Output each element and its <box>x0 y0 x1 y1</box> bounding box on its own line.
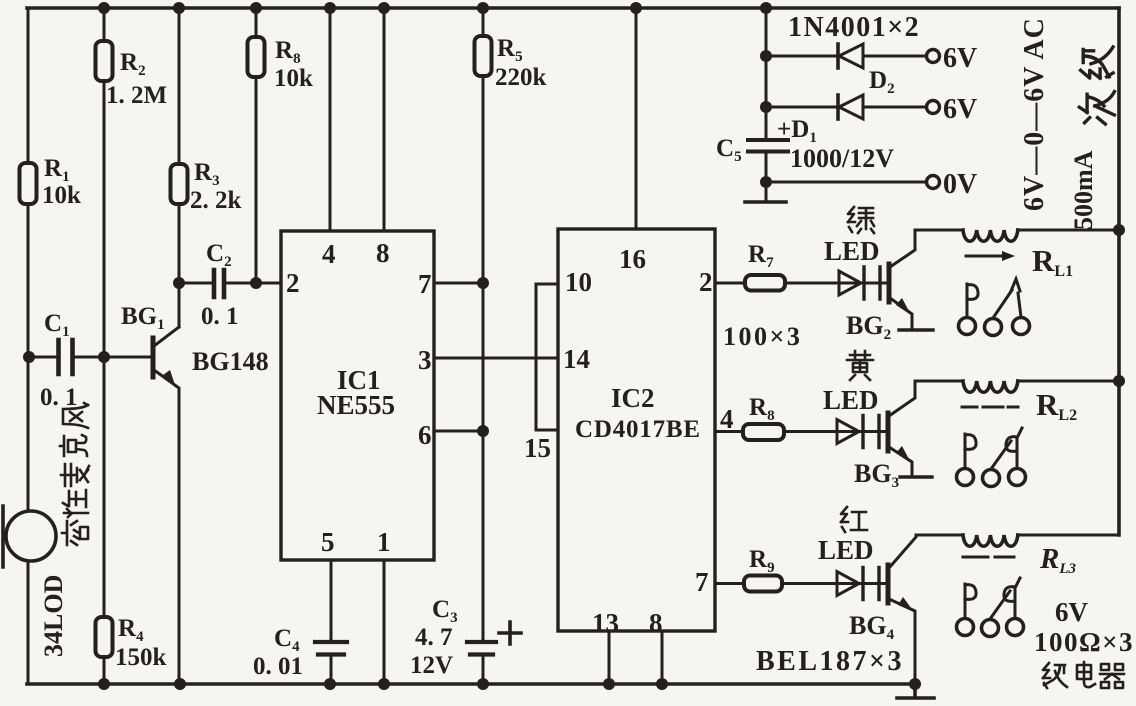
wire power supply column <box>765 8 768 140</box>
transistor Q1 BG1 emitter <box>154 370 179 684</box>
node RL1 rail junction <box>1113 224 1125 236</box>
wire bottom ground rail <box>27 682 916 686</box>
node power column junctions <box>760 50 772 188</box>
svg-text:BG2: BG2 <box>846 311 891 343</box>
svg-text:4: 4 <box>322 239 336 269</box>
svg-text:R1: R1 <box>44 155 70 185</box>
transistor Q2 BG2 base bar <box>887 264 892 302</box>
LED D3 green <box>839 267 880 299</box>
svg-text:100Ω×3: 100Ω×3 <box>1034 627 1134 657</box>
svg-text:6V—0—6V AC: 6V—0—6V AC <box>1019 17 1050 211</box>
wire IC1 pin8 column <box>383 8 386 231</box>
wire mic to C1 <box>28 356 56 359</box>
svg-text:R9: R9 <box>749 546 775 576</box>
capacitor C1 <box>59 340 73 374</box>
svg-text:C5: C5 <box>716 135 742 165</box>
svg-text:5: 5 <box>321 527 335 557</box>
wire right rail <box>1117 8 1121 535</box>
resistor R7 <box>745 275 785 291</box>
wire IC2 pin16 column <box>635 8 638 229</box>
svg-text:1000/12V: 1000/12V <box>790 144 894 173</box>
wire relay RL3 row with coil <box>916 534 1119 537</box>
node pin7 junction <box>477 277 489 289</box>
svg-text:R2: R2 <box>120 49 146 79</box>
wire 0V row <box>766 181 927 184</box>
transistor Q4 BG4 base bar <box>886 565 891 603</box>
svg-text:8: 8 <box>649 608 663 638</box>
microphone 34LOD body <box>6 511 56 561</box>
svg-text:NE555: NE555 <box>317 390 395 420</box>
wire IC1 pin1 column <box>383 560 386 684</box>
svg-text:7: 7 <box>418 269 432 299</box>
svg-text:LED: LED <box>824 236 880 266</box>
node RL2 rail junction <box>1113 375 1125 387</box>
op-amp IC1 box <box>281 231 434 560</box>
wire C2 to IC1 pin2 <box>226 282 281 285</box>
LED D5 red <box>837 568 879 600</box>
svg-text:R7: R7 <box>748 241 774 271</box>
wire relay RL1 row with coil <box>915 229 1119 232</box>
wire IC1 pin4 column <box>329 8 332 231</box>
transistor Q1 BG1 emitter arrow <box>163 370 176 388</box>
relay RL2 moving contact <box>991 441 1011 469</box>
svg-text:R8: R8 <box>749 394 775 424</box>
wire R6 220k column <box>482 8 485 640</box>
svg-text:0. 1: 0. 1 <box>40 384 78 411</box>
relay RL2 contact circles <box>957 469 1026 487</box>
diode D1 <box>838 95 863 119</box>
relay RL1 contact circles <box>959 318 1030 336</box>
wire R3 collector column <box>178 8 181 283</box>
relay RL3 right contact pin <box>1004 578 1020 618</box>
wire IC2 pin7 to R9 <box>715 582 744 585</box>
wire R4 column <box>103 357 106 684</box>
label green <box>848 207 874 233</box>
transistor Q4 BG4 emitter <box>889 599 915 684</box>
svg-text:BG1: BG1 <box>121 303 165 333</box>
relay RL1 core arrow <box>966 255 1006 258</box>
svg-text:6V: 6V <box>1055 597 1089 627</box>
capacitor C3 plus sign <box>499 622 521 644</box>
wire IC2 pin8 to ground <box>661 631 664 684</box>
wire left rail upper (through R1) <box>27 8 30 510</box>
svg-text:1N4001×2: 1N4001×2 <box>788 12 920 43</box>
wire BG2 emitter bar <box>899 328 933 331</box>
svg-text:4: 4 <box>720 404 734 434</box>
svg-text:BG4: BG4 <box>849 611 895 643</box>
wire IC2 pin4 to R8 <box>715 430 743 433</box>
resistor R9 <box>744 576 782 592</box>
wire C4 to ground <box>330 656 333 684</box>
label 500mA secondary rotated <box>1069 47 1114 230</box>
svg-text:RL3: RL3 <box>1039 543 1077 577</box>
label red <box>841 507 867 532</box>
svg-text:100×3: 100×3 <box>723 322 802 351</box>
svg-text:10: 10 <box>565 267 592 297</box>
svg-text:14: 14 <box>563 344 590 374</box>
capacitor C2 <box>214 270 224 297</box>
resistor R8 <box>743 424 784 440</box>
svg-text:1: 1 <box>377 527 391 557</box>
svg-text:13: 13 <box>592 608 619 638</box>
svg-text:R4: R4 <box>118 615 144 645</box>
wire D2 row <box>766 55 927 58</box>
ground below BG4 <box>897 684 934 698</box>
wire R8 to LED2 <box>784 430 888 433</box>
relay RL1 right contact pin <box>1011 279 1021 317</box>
wire R5 column <box>255 8 258 283</box>
svg-text:C4: C4 <box>274 625 300 655</box>
wire left rail lower (mic to bottom) <box>27 562 30 684</box>
svg-text:2: 2 <box>699 267 713 297</box>
diode D2 <box>838 44 863 68</box>
svg-text:15: 15 <box>524 433 551 463</box>
resistor R5 <box>248 37 265 77</box>
relay RL1 moving contact <box>993 290 1012 318</box>
svg-text:8: 8 <box>376 238 390 268</box>
resistor R3 <box>171 164 188 204</box>
node pin6 junction <box>477 425 489 437</box>
wire C1 to BG1 base <box>75 356 151 359</box>
relay RL1 core arrowhead <box>1002 251 1015 261</box>
label condenser microphone rotated <box>60 403 89 545</box>
svg-text:4. 7: 4. 7 <box>415 624 453 651</box>
wire collector to C2 node <box>178 283 181 327</box>
svg-text:1. 2M: 1. 2M <box>106 82 167 109</box>
wire C3 to ground <box>482 656 485 684</box>
wire C2 left <box>179 282 212 285</box>
wire IC1 pin7 to R6 <box>434 282 483 285</box>
svg-text:CD4017BE: CD4017BE <box>575 416 701 443</box>
relay RL3 core dashes <box>963 556 1014 559</box>
svg-text:BG148: BG148 <box>192 347 269 376</box>
capacitor C3 <box>467 642 496 655</box>
svg-text:RL1: RL1 <box>1032 243 1073 280</box>
svg-text:6V: 6V <box>943 94 977 125</box>
terminal 6V upper <box>927 50 940 63</box>
label yellow <box>847 351 873 380</box>
microphone diaphragm bar <box>1 506 5 567</box>
relay RL2 core dashes <box>962 406 1018 409</box>
terminal 0V <box>927 176 940 189</box>
wire R7 to LED1 <box>785 282 888 285</box>
op-amp IC2 box <box>558 229 715 631</box>
wire IC1 pin3 to IC2 pin14 <box>434 357 558 360</box>
svg-text:LED: LED <box>823 385 879 415</box>
svg-text:6V: 6V <box>943 43 977 74</box>
wire power end bar <box>745 200 786 204</box>
svg-text:LED: LED <box>818 535 874 565</box>
resistor R1 <box>20 163 37 204</box>
transistor Q4 BG4 collector <box>889 535 916 568</box>
inductor relay RL2 coil <box>963 381 1018 392</box>
capacitor C5 <box>748 140 788 152</box>
svg-text:+D1: +D1 <box>777 116 817 146</box>
capacitor C4 <box>315 642 347 655</box>
svg-text:150k: 150k <box>115 644 167 671</box>
svg-text:10k: 10k <box>42 182 81 209</box>
resistor R2 <box>96 41 113 81</box>
relay RL2 left contact pin <box>965 434 976 468</box>
svg-text:BG3: BG3 <box>854 459 899 491</box>
relay RL3 moving contact <box>990 591 1010 619</box>
transistor Q2 BG2 emitter arrow <box>896 298 911 315</box>
wire relay RL2 row with coil <box>915 380 1119 383</box>
svg-text:3: 3 <box>418 345 432 375</box>
svg-text:2: 2 <box>286 268 300 298</box>
resistor R6 <box>475 36 492 76</box>
transistor Q3 BG3 emitter arrow <box>896 446 911 463</box>
svg-text:IC2: IC2 <box>611 383 655 413</box>
relay RL1 left contact pin <box>967 284 978 317</box>
inductor relay RL3 coil <box>963 535 1018 546</box>
node top rail junctions <box>98 2 772 14</box>
svg-text:C1: C1 <box>44 310 70 340</box>
label relay chinese <box>1043 663 1067 688</box>
svg-text:2. 2k: 2. 2k <box>190 187 242 214</box>
wire IC1 pin5 to C4 <box>330 560 333 640</box>
svg-text:500mA: 500mA <box>1069 150 1098 230</box>
svg-text:0. 1: 0. 1 <box>201 303 239 330</box>
wire R2 column <box>103 8 106 357</box>
transistor Q4 BG4 emitter arrow <box>898 597 914 612</box>
transistor Q2 BG2 collector <box>890 230 915 267</box>
node base row junctions <box>23 351 110 363</box>
svg-text:D2: D2 <box>869 67 895 97</box>
wire R9 to LED3 <box>782 582 888 585</box>
svg-text:R5: R5 <box>497 35 523 65</box>
svg-text:0. 01: 0. 01 <box>253 653 303 680</box>
node C2 row junctions <box>173 277 262 289</box>
LED D4 yellow <box>837 416 879 448</box>
svg-text:RL2: RL2 <box>1036 387 1077 424</box>
svg-text:7: 7 <box>695 567 709 597</box>
svg-text:0V: 0V <box>943 169 977 200</box>
inductor relay RL1 coil <box>963 230 1018 241</box>
resistor R4 <box>96 617 113 657</box>
transistor Q3 BG3 emitter <box>889 447 912 477</box>
relay RL3 left contact pin <box>965 584 976 618</box>
wire IC2 pin2 to R7 <box>715 282 745 285</box>
node bottom rail junctions <box>98 678 921 690</box>
wire IC2 pin10-pin15 bracket <box>536 284 558 430</box>
svg-text:12V: 12V <box>410 652 453 679</box>
wire D1 row <box>766 106 927 109</box>
transistor Q1 BG1 collector <box>154 327 179 346</box>
svg-text:220k: 220k <box>495 64 547 91</box>
svg-text:R8: R8 <box>275 37 301 67</box>
wire BG3 emitter bar <box>900 475 932 478</box>
svg-text:C2: C2 <box>206 240 232 270</box>
wire IC2 pin13 to ground <box>608 631 611 684</box>
relay RL2 right contact pin <box>1006 428 1022 468</box>
transistor Q3 BG3 base bar <box>886 413 891 451</box>
wire top supply rail <box>27 6 1119 10</box>
transistor Q1 BG1 base bar <box>151 338 156 377</box>
svg-text:10k: 10k <box>274 65 313 92</box>
wire IC1 pin6 to R6 column <box>434 430 483 433</box>
svg-text:R3: R3 <box>194 159 220 189</box>
wire C5 bottom to end bar <box>765 153 768 202</box>
relay RL3 contact circles <box>957 619 1024 637</box>
transistor Q3 BG3 collector <box>889 381 915 416</box>
svg-text:34LOD: 34LOD <box>39 575 68 657</box>
svg-text:C3: C3 <box>432 596 458 626</box>
svg-text:6: 6 <box>418 420 432 450</box>
svg-text:16: 16 <box>619 244 646 274</box>
terminal 6V lower <box>927 101 940 114</box>
transistor Q2 BG2 emitter <box>890 298 912 330</box>
svg-text:BEL187×3: BEL187×3 <box>756 646 904 677</box>
